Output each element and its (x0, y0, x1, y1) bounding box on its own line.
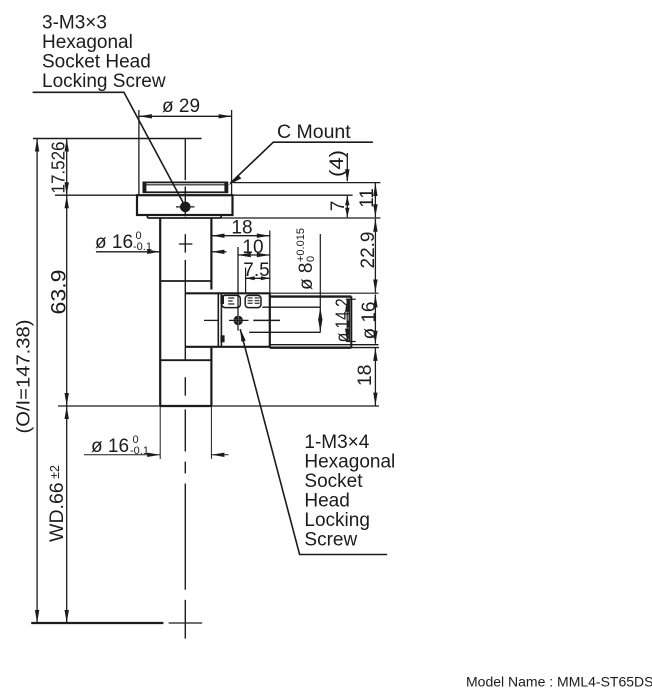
svg-text:Model Name : MML4-ST65DS: Model Name : MML4-ST65DS (466, 674, 652, 690)
vertical centerline of lens axis (179, 139, 193, 639)
dimension ø8 +0.015/0 (295, 228, 323, 332)
leader from note to top locking screw (33, 92, 186, 206)
C-mount flange (143, 182, 227, 192)
dimension ø16 0/-0.1 lower (84, 406, 229, 459)
svg-text:Locking: Locking (304, 510, 370, 531)
dimension 17.526 (55, 139, 137, 196)
svg-text:(4): (4) (327, 150, 348, 177)
svg-text:Hexagonal: Hexagonal (304, 452, 395, 473)
dimension 18 (top of block) (212, 218, 270, 239)
svg-text:ø 14.2: ø 14.2 (332, 298, 352, 342)
svg-text:ø 29: ø 29 (162, 96, 200, 117)
svg-text:Locking Screw: Locking Screw (42, 71, 166, 92)
dimension 22.9 (358, 219, 379, 293)
dimension (O/I=147.38) (36, 139, 38, 624)
dimension 11 (357, 183, 378, 217)
svg-text:17.526: 17.526 (49, 142, 69, 194)
note 1-M3x4 hexagonal socket head locking screw (304, 432, 395, 551)
svg-text:18: 18 (354, 364, 376, 386)
dimension 63.9 (66, 195, 68, 406)
svg-text:Screw: Screw (304, 530, 357, 551)
dimension 7 (328, 196, 350, 217)
image plane reference line (33, 138, 202, 140)
extension line plate top right (233, 194, 353, 196)
ø8 hole lines (249, 307, 320, 332)
svg-text:7.5: 7.5 (243, 260, 269, 281)
svg-text:C Mount: C Mount (277, 121, 351, 143)
extension line plate bottom right (222, 217, 381, 219)
svg-text:11: 11 (357, 188, 378, 208)
svg-text:Socket: Socket (304, 471, 363, 492)
svg-text:3-M3×3: 3-M3×3 (42, 13, 107, 34)
svg-text:7: 7 (328, 201, 349, 212)
leader from note to side locking screw (240, 329, 387, 554)
svg-text:ø 16: ø 16 (359, 301, 380, 339)
side locking screw (229, 247, 249, 331)
svg-text:Head: Head (304, 491, 349, 512)
dimension ø29 (139, 110, 232, 195)
dimension 7.5 (243, 260, 270, 281)
side port cylinder (270, 296, 352, 347)
locking screw on plate (176, 202, 195, 213)
svg-text:ø 16: ø 16 (91, 436, 129, 457)
svg-text:0: 0 (305, 256, 317, 262)
block housing (186, 293, 270, 347)
svg-text:63.9: 63.9 (48, 270, 71, 315)
svg-text:18: 18 (231, 218, 252, 239)
extension line x=246.8 for 7.5 (245, 268, 247, 294)
svg-text:1-M3×4: 1-M3×4 (304, 432, 369, 453)
note 3-M3x3 hexagonal socket head locking screw (42, 13, 166, 93)
label plate F.G (220, 295, 240, 307)
dimension 18 right (354, 348, 378, 406)
dimension 10 (238, 237, 270, 258)
dimension ø16 right (359, 294, 380, 343)
label plate MML (245, 295, 261, 307)
block left double edge (218, 293, 221, 346)
port chamfer edge lines (346, 299, 356, 341)
barrel joint lines (160, 281, 211, 406)
dimension ø14.2 (332, 298, 352, 342)
extension line block top to right (270, 292, 379, 294)
lens barrel upper (160, 218, 211, 406)
svg-text:Socket Head: Socket Head (42, 52, 151, 73)
svg-text:-0.1: -0.1 (130, 445, 149, 457)
port axis centerline (204, 319, 218, 321)
mount plate (137, 195, 233, 215)
dimension (4) (327, 150, 350, 182)
svg-text:10: 10 (242, 237, 263, 258)
svg-text:(O/I=147.38): (O/I=147.38) (13, 320, 34, 434)
extension line under block to right (270, 344, 379, 346)
extension line (4)/11 top (233, 182, 380, 184)
plate skirt (148, 215, 222, 218)
extension line x=266.8 for 18/10/7.5 (269, 231, 271, 294)
leader C Mount (230, 142, 373, 183)
svg-text:22.9: 22.9 (358, 232, 379, 269)
svg-text:Hexagonal: Hexagonal (42, 32, 133, 53)
svg-text:ø 8: ø 8 (296, 263, 317, 290)
dimension ø16 0/-0.1 upper (96, 251, 227, 253)
svg-text:-0.1: -0.1 (133, 241, 152, 253)
svg-text:ø 16: ø 16 (95, 232, 133, 253)
object plane line (31, 622, 163, 624)
dimension WD.66 +/-2 (58, 406, 379, 623)
